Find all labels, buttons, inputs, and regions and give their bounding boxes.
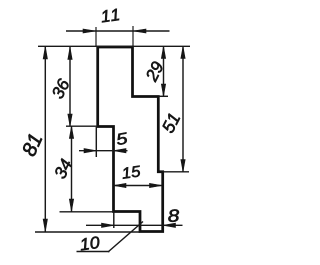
dimension line 5: [79, 150, 128, 152]
dimension line 11: [66, 30, 170, 32]
extension line down from 5-step corner: [95, 127, 97, 157]
dimension text 34: [53, 158, 72, 180]
dimension text 10: [79, 236, 100, 250]
extension line right of 29-step: [158, 95, 168, 97]
extension line down from lower-left step corner: [113, 212, 115, 228]
extension line top (left and right of top face): [38, 45, 190, 47]
dimension text 36: [51, 78, 70, 100]
extension line of lower-left step to the left: [60, 211, 115, 213]
dimension text 5: [116, 132, 128, 145]
extension line bottom (left of bottom face): [35, 231, 140, 233]
dimension text 81: [21, 133, 42, 157]
dimension line 10 and 8 (shared): [86, 224, 183, 226]
dimension text 8: [168, 209, 180, 222]
extension line of 5-step to the left: [66, 125, 98, 127]
dimension line 29: [163, 46, 165, 96]
dimension text 11: [100, 9, 119, 23]
leader line of dimension 10: [108, 222, 143, 253]
part outline (stepped profile): [98, 47, 163, 232]
extension line up left corner (dim 11): [95, 27, 97, 46]
dimension line 15: [114, 185, 163, 187]
dimension line 81: [44, 46, 46, 232]
dimension text 29: [145, 60, 164, 82]
dimension line 51: [182, 46, 184, 172]
extension line up right corner (dim 11): [132, 26, 134, 46]
underline of dimension text 10: [77, 251, 110, 253]
dimension line 36: [69, 47, 71, 126]
extension line right of 51-step: [163, 171, 189, 173]
dimension text 15: [121, 166, 141, 179]
dimension line 34: [71, 126, 73, 211]
dimension text 51: [161, 113, 180, 134]
